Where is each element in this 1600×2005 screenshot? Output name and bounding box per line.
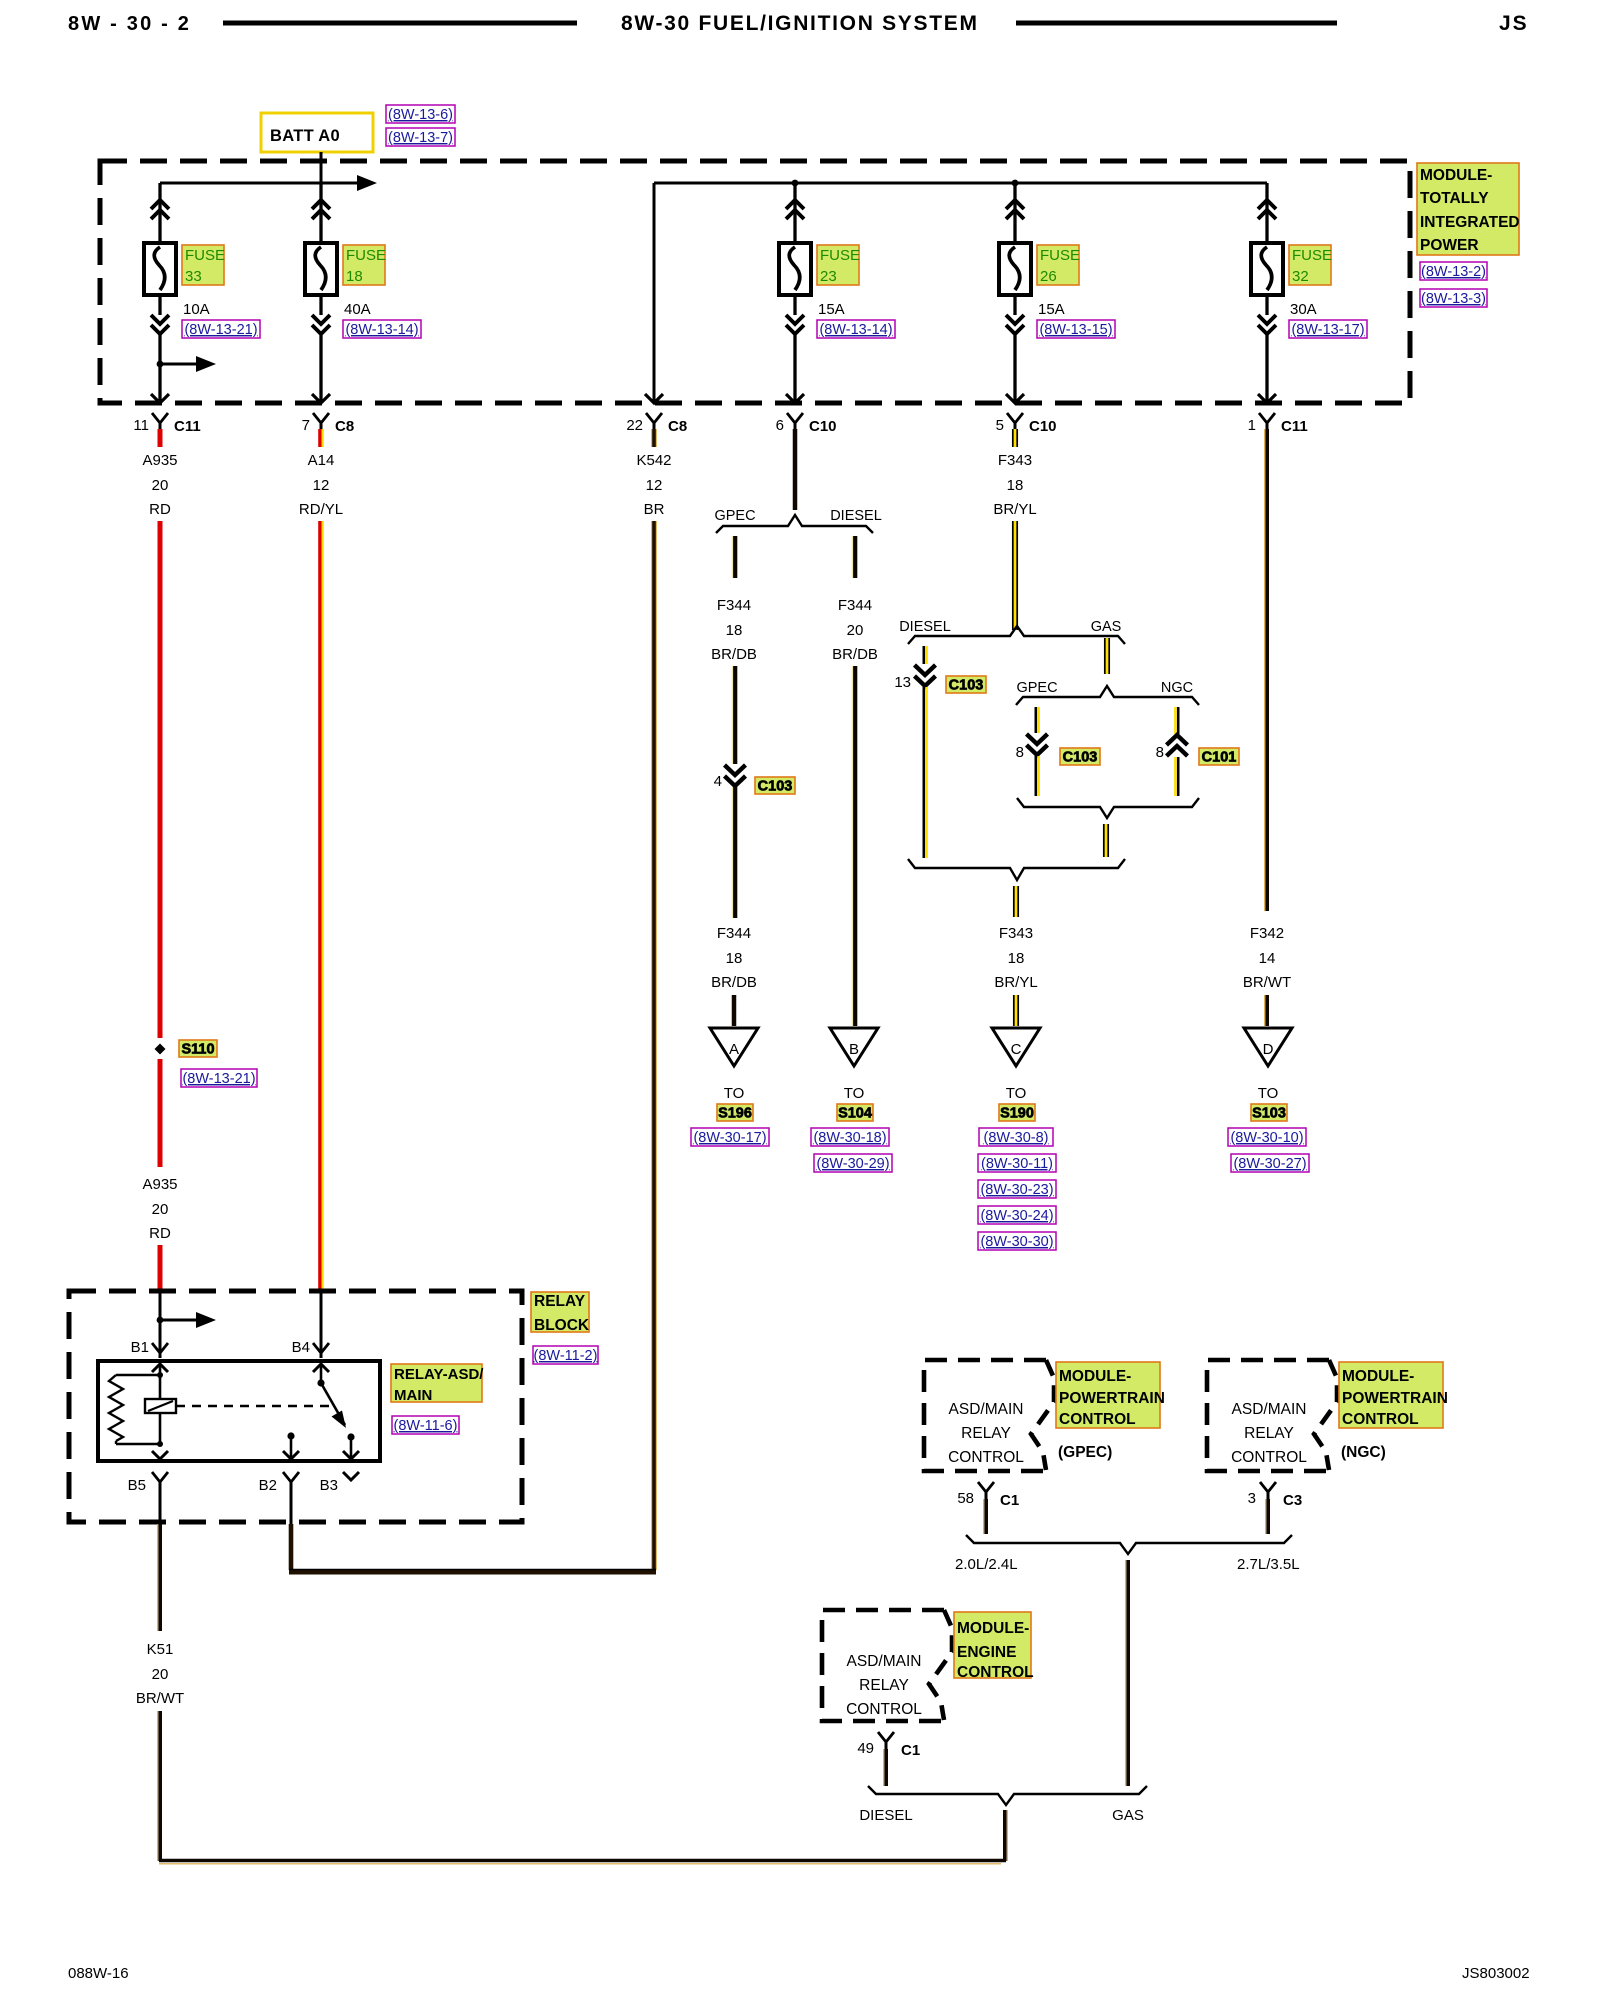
relay coil resistor <box>116 1374 160 1376</box>
fuse 26 symbol <box>999 243 1031 295</box>
wire B1 feed <box>159 1291 162 1358</box>
wire fuse 33 drop <box>158 183 161 243</box>
wire from pin 49 <box>883 1749 885 1786</box>
svg-text:A935: A935 <box>142 452 177 469</box>
svg-text:C1: C1 <box>1000 1492 1019 1509</box>
wire B5 through block edge <box>159 1489 162 1524</box>
wire from pin 6 C10 <box>793 429 798 510</box>
svg-text:S110: S110 <box>181 1042 214 1058</box>
svg-text:11: 11 <box>133 417 149 434</box>
wire fuse 26 drop <box>1013 183 1016 243</box>
wire B2 to K542 riser <box>289 1524 294 1570</box>
svg-text:(8W-13-14): (8W-13-14) <box>819 322 892 338</box>
bus feed arrow <box>321 182 357 185</box>
svg-text:3: 3 <box>1248 1490 1256 1507</box>
svg-text:BR/WT: BR/WT <box>136 1690 184 1707</box>
link 8W-30-30 <box>978 1232 1056 1250</box>
pin 49 C1 <box>878 1732 894 1742</box>
svg-text:6: 6 <box>776 417 784 434</box>
svg-text:ASD/MAIN: ASD/MAIN <box>847 1653 922 1670</box>
svg-text:33: 33 <box>185 268 202 285</box>
link 8W-13-2 <box>1420 262 1487 280</box>
bus junction wire left to fuse 33 <box>160 182 321 185</box>
fuse 18 symbol <box>305 243 337 295</box>
connector C103 pin 4 <box>725 765 746 775</box>
svg-text:BATT A0: BATT A0 <box>270 127 340 145</box>
fuse 26 label <box>1037 245 1079 285</box>
merge brace GPEC/NGC <box>1017 798 1199 818</box>
bus feed line to fuses 23/26/32 (K542 top) <box>654 182 1267 185</box>
svg-text:A935: A935 <box>142 1176 177 1193</box>
svg-text:26: 26 <box>1040 268 1057 285</box>
wire F343 BR/YL down <box>1014 521 1017 630</box>
wire fuse 26 to connector <box>1013 295 1016 315</box>
connector chevrons above fuse 32 <box>1258 200 1276 209</box>
wire BATT A0 to bus <box>320 152 323 183</box>
svg-text:DIESEL: DIESEL <box>859 1807 912 1824</box>
svg-text:CONTROL: CONTROL <box>948 1449 1024 1466</box>
wire A935 stub <box>158 429 163 447</box>
svg-text:C10: C10 <box>809 418 837 435</box>
wire merged F343 stub <box>1015 886 1018 917</box>
svg-text:TO: TO <box>724 1085 745 1102</box>
connector pin 11 C11 <box>152 413 168 423</box>
svg-text:RELAY: RELAY <box>1244 1425 1294 1442</box>
relay actuator dashed link <box>176 1405 333 1407</box>
junction arrow B1 <box>157 1317 164 1324</box>
svg-text:C103: C103 <box>758 779 793 795</box>
off-page triangle A <box>710 1028 758 1066</box>
svg-text:RELAY: RELAY <box>534 1293 586 1310</box>
wire fuse 18 to connector <box>319 295 322 315</box>
svg-text:A14: A14 <box>308 452 335 469</box>
svg-text:RELAY-ASD/: RELAY-ASD/ <box>394 1366 484 1383</box>
svg-text:(8W-30-18): (8W-30-18) <box>813 1130 886 1146</box>
svg-text:15A: 15A <box>1038 301 1065 318</box>
off-page triangle B <box>830 1028 878 1066</box>
connector chevrons above fuse 26 <box>1006 200 1024 209</box>
svg-text:32: 32 <box>1292 268 1309 285</box>
link 8W-30-27 <box>1231 1154 1309 1172</box>
arrowhead at TIPM edge x=321 <box>312 394 330 403</box>
relay coil <box>145 1399 176 1413</box>
svg-text:BR: BR <box>644 501 665 518</box>
svg-text:23: 23 <box>820 268 837 285</box>
svg-text:4: 4 <box>714 773 722 790</box>
svg-text:ENGINE: ENGINE <box>957 1644 1016 1661</box>
relay RELAY-ASD/MAIN body <box>98 1361 380 1461</box>
svg-text:B2: B2 <box>259 1477 277 1494</box>
svg-text:GPEC: GPEC <box>1016 680 1057 696</box>
svg-text:15A: 15A <box>818 301 845 318</box>
wire F344 to label <box>731 787 733 918</box>
svg-text:RELAY: RELAY <box>961 1425 1011 1442</box>
svg-text:30A: 30A <box>1290 301 1317 318</box>
svg-text:FUSE: FUSE <box>346 247 386 264</box>
svg-text:B5: B5 <box>128 1477 146 1494</box>
svg-text:POWERTRAIN: POWERTRAIN <box>1059 1390 1165 1407</box>
svg-text:F342: F342 <box>1250 925 1284 942</box>
svg-text:8: 8 <box>1156 744 1164 761</box>
wire NGC sub-branch lower <box>1177 757 1180 796</box>
svg-text:(8W-13-7): (8W-13-7) <box>388 130 453 146</box>
svg-text:(NGC): (NGC) <box>1341 1444 1386 1461</box>
svg-text:8: 8 <box>1016 744 1024 761</box>
svg-text:MAIN: MAIN <box>394 1387 432 1404</box>
svg-text:JS: JS <box>1499 12 1529 35</box>
wire B2 through block edge <box>290 1489 293 1524</box>
svg-text:GAS: GAS <box>1112 1807 1144 1824</box>
svg-text:22: 22 <box>626 417 643 434</box>
svg-text:S103: S103 <box>1252 1106 1286 1122</box>
link 8W-30-8 <box>979 1128 1053 1146</box>
wire fuse 32 to connector <box>1265 295 1268 315</box>
wire GPEC sub-branch <box>1035 707 1038 733</box>
fuse 32 symbol <box>1251 243 1283 295</box>
svg-text:JS803002: JS803002 <box>1462 1965 1530 1982</box>
wire K542 drop from bus <box>653 183 656 401</box>
pin 58 C1 <box>978 1482 994 1492</box>
svg-text:ASD/MAIN: ASD/MAIN <box>949 1401 1024 1418</box>
wire DIESEL branch stub <box>851 536 853 578</box>
svg-text:C11: C11 <box>1281 418 1308 435</box>
connector C103 pin 8 <box>1027 734 1048 744</box>
link 8W-13-21 <box>182 320 260 338</box>
svg-text:CONTROL: CONTROL <box>1059 1411 1136 1428</box>
link 8W-13-14 <box>817 320 895 338</box>
arrowhead at TIPM edge x=795 <box>786 394 804 403</box>
svg-text:(8W-11-2): (8W-11-2) <box>534 1348 598 1364</box>
svg-text:DIESEL: DIESEL <box>830 508 882 524</box>
module Totally Integrated Power dashed outline <box>100 161 1410 403</box>
svg-text:(8W-13-17): (8W-13-17) <box>1291 322 1364 338</box>
svg-text:K51: K51 <box>147 1641 174 1658</box>
connector chevrons below fuse 26 <box>1006 315 1024 324</box>
svg-text:C3: C3 <box>1283 1492 1302 1509</box>
connector chevrons above fuse 18 <box>312 200 330 209</box>
wire K51 lower <box>157 1711 159 1861</box>
svg-text:K542: K542 <box>636 452 671 469</box>
svg-text:20: 20 <box>152 477 169 494</box>
wire F344 DIESEL down <box>851 666 853 1026</box>
svg-text:INTEGRATED: INTEGRATED <box>1420 214 1520 231</box>
svg-text:F344: F344 <box>838 597 872 614</box>
arrowhead at TIPM edge K542 <box>645 394 663 403</box>
svg-text:RD: RD <box>149 1225 171 1242</box>
wire GPEC sub-branch lower <box>1035 756 1038 796</box>
svg-text:D: D <box>1263 1041 1274 1058</box>
fuse 23 label <box>817 245 859 285</box>
fuse 33 symbol <box>144 243 176 295</box>
svg-text:BR/YL: BR/YL <box>993 501 1036 518</box>
svg-text:A: A <box>729 1041 739 1058</box>
svg-text:20: 20 <box>152 1666 169 1683</box>
wire K51 horizontal run <box>159 1859 1006 1862</box>
off-page triangle D <box>1244 1028 1292 1066</box>
svg-text:CONTROL: CONTROL <box>957 1664 1034 1681</box>
link 8W-30-18 <box>811 1128 889 1146</box>
svg-text:TO: TO <box>1006 1085 1027 1102</box>
relay coil branch B1 <box>152 1364 168 1372</box>
pin B4 <box>313 1343 329 1353</box>
relay block dashed outline <box>69 1291 522 1522</box>
svg-text:20: 20 <box>152 1201 169 1218</box>
svg-text:20: 20 <box>847 622 864 639</box>
wire F342 from pin 1 C11 <box>1264 429 1266 911</box>
label MODULE-POWERTRAIN CONTROL (NGC) <box>1339 1362 1443 1428</box>
connector pin 22 C8 <box>646 413 662 423</box>
svg-text:C1: C1 <box>901 1742 920 1759</box>
connector chevrons below fuse 18 <box>312 315 330 324</box>
svg-text:7: 7 <box>302 417 310 434</box>
svg-text:12: 12 <box>313 477 330 494</box>
module Powertrain Control (NGC) dashed outline <box>1207 1360 1329 1471</box>
svg-text:B4: B4 <box>292 1339 310 1356</box>
junction arrow inside TIPM on fuse 33 branch <box>157 361 164 368</box>
svg-text:(8W-30-24): (8W-30-24) <box>980 1208 1053 1224</box>
svg-text:(8W-30-27): (8W-30-27) <box>1233 1156 1306 1172</box>
svg-text:C11: C11 <box>174 418 201 435</box>
svg-text:MODULE-: MODULE- <box>957 1620 1029 1637</box>
link 8W-13-3 <box>1420 289 1487 307</box>
svg-text:GAS: GAS <box>1091 619 1122 635</box>
wire merged GAS stub <box>1105 824 1108 857</box>
link 8W-30-23 <box>978 1180 1056 1198</box>
svg-text:(8W-30-23): (8W-30-23) <box>980 1182 1053 1198</box>
merge brace DIESEL/GAS <box>868 1786 1147 1805</box>
link 8W-30-10 <box>1228 1128 1306 1146</box>
svg-text:TO: TO <box>844 1085 865 1102</box>
svg-text:BR/DB: BR/DB <box>711 974 757 991</box>
label RELAY-ASD/MAIN <box>391 1364 482 1402</box>
svg-text:C10: C10 <box>1029 418 1057 435</box>
wire K542 BR down <box>651 521 653 1570</box>
pin B1 <box>152 1343 168 1353</box>
svg-text:088W-16: 088W-16 <box>68 1965 129 1982</box>
wire gas riser <box>1125 1560 1127 1786</box>
merge brace DIESEL/GAS <box>908 859 1125 880</box>
arrowhead at TIPM edge x=1015 <box>1006 394 1024 403</box>
svg-text:(8W-30-10): (8W-30-10) <box>1230 1130 1303 1146</box>
fuse 23 symbol <box>779 243 811 295</box>
link 8W-13-7 <box>386 128 455 146</box>
svg-text:1: 1 <box>1248 417 1256 434</box>
svg-text:C101: C101 <box>1202 750 1237 766</box>
wire fuse 32 drop <box>1265 183 1268 243</box>
module Powertrain Control (GPEC) dashed outline <box>924 1360 1046 1471</box>
svg-text:(8W-13-3): (8W-13-3) <box>1421 291 1486 307</box>
svg-text:S104: S104 <box>838 1106 872 1122</box>
svg-text:TOTALLY: TOTALLY <box>1420 190 1489 207</box>
svg-text:GPEC: GPEC <box>714 508 755 524</box>
fuse 33 label <box>182 245 224 285</box>
wire A14 stub <box>318 429 322 447</box>
svg-text:8W-30 FUEL/IGNITION SYSTEM: 8W-30 FUEL/IGNITION SYSTEM <box>621 12 979 35</box>
wire A14 RD/YL down to relay <box>318 521 322 1291</box>
svg-text:B1: B1 <box>131 1339 149 1356</box>
fuse 32 label <box>1289 245 1331 285</box>
svg-text:(8W-30-30): (8W-30-30) <box>980 1234 1053 1250</box>
connector pin 7 C8 <box>313 413 329 423</box>
wire DIESEL F343 down to merge <box>922 687 925 858</box>
link 8W-13-6 <box>386 105 455 123</box>
svg-text:(8W-30-29): (8W-30-29) <box>816 1156 889 1172</box>
wire from pin 3 <box>1265 1499 1267 1534</box>
label MODULE-POWERTRAIN CONTROL <box>1056 1362 1160 1428</box>
svg-text:58: 58 <box>957 1490 974 1507</box>
connector pin 6 C10 <box>787 413 803 423</box>
svg-text:B3: B3 <box>320 1477 338 1494</box>
svg-text:BR/DB: BR/DB <box>711 646 757 663</box>
wire GPEC branch stub <box>731 536 733 578</box>
svg-text:B: B <box>849 1041 859 1058</box>
svg-text:(8W-30-17): (8W-30-17) <box>693 1130 766 1146</box>
wire stub to triangle C <box>1015 995 1018 1026</box>
svg-text:40A: 40A <box>344 301 371 318</box>
svg-text:(8W-13-6): (8W-13-6) <box>388 107 453 123</box>
svg-text:(GPEC): (GPEC) <box>1058 1444 1112 1461</box>
svg-text:RELAY: RELAY <box>859 1677 909 1694</box>
connector chevrons below fuse 33 <box>151 315 169 324</box>
svg-text:(8W-30-8): (8W-30-8) <box>984 1130 1049 1146</box>
relay B1 bottom arrowhead <box>152 1451 168 1459</box>
wire brace to K51 run <box>1006 1810 1008 1861</box>
svg-text:BR/YL: BR/YL <box>994 974 1037 991</box>
svg-text:FUSE: FUSE <box>185 247 225 264</box>
link 8W-13-15 <box>1037 320 1115 338</box>
link 8W-13-14 <box>343 320 421 338</box>
pin 3 C3 <box>1260 1482 1276 1492</box>
link 8W-30-29 <box>814 1154 892 1172</box>
connector pin 5 C10 <box>1007 413 1023 423</box>
svg-text:C8: C8 <box>668 418 687 435</box>
svg-text:CONTROL: CONTROL <box>1231 1449 1307 1466</box>
svg-text:F344: F344 <box>717 597 751 614</box>
svg-text:TO: TO <box>1258 1085 1279 1102</box>
brace GPEC/DIESEL <box>716 515 873 533</box>
link 8W-11-6 <box>392 1416 459 1434</box>
svg-text:10A: 10A <box>183 301 210 318</box>
svg-text:13: 13 <box>894 674 911 691</box>
wire stub to triangle D <box>1264 995 1266 1026</box>
svg-text:18: 18 <box>726 950 743 967</box>
wire fuse 23 drop <box>793 183 796 243</box>
svg-text:2.0L/2.4L: 2.0L/2.4L <box>955 1556 1018 1573</box>
splice S110 <box>155 1044 166 1055</box>
wire NGC sub-branch upper <box>1177 707 1180 734</box>
svg-text:C103: C103 <box>949 678 984 694</box>
link 8W-30-24 <box>978 1206 1056 1224</box>
pin B5 <box>152 1472 168 1482</box>
svg-text:S190: S190 <box>1000 1106 1034 1122</box>
wire fuse 23 to connector <box>793 295 796 315</box>
relay contact B2 <box>287 1432 294 1439</box>
wire K542 stub <box>651 429 653 447</box>
svg-text:(8W-13-15): (8W-13-15) <box>1039 322 1112 338</box>
module label MODULE-TOTALLY INTEGRATED POWER <box>1417 163 1519 255</box>
svg-text:NGC: NGC <box>1161 680 1193 696</box>
brace GPEC/NGC <box>1016 686 1199 705</box>
svg-text:BR/DB: BR/DB <box>832 646 878 663</box>
svg-text:POWER: POWER <box>1420 237 1479 254</box>
wire A935 RD down to splice <box>158 521 163 1038</box>
svg-text:(8W-13-21): (8W-13-21) <box>182 1071 255 1087</box>
wire GAS stub <box>1106 638 1109 674</box>
svg-text:ASD/MAIN: ASD/MAIN <box>1232 1401 1307 1418</box>
svg-text:14: 14 <box>1259 950 1276 967</box>
svg-text:MODULE-: MODULE- <box>1420 167 1492 184</box>
header rule left <box>223 21 577 26</box>
battery feed BATT A0 <box>261 113 373 152</box>
svg-text:(8W-13-2): (8W-13-2) <box>1421 264 1486 280</box>
svg-text:FUSE: FUSE <box>820 247 860 264</box>
arrowhead at TIPM edge x=160 <box>151 394 169 403</box>
svg-text:FUSE: FUSE <box>1292 247 1332 264</box>
svg-text:C103: C103 <box>1063 750 1098 766</box>
svg-text:C: C <box>1011 1041 1022 1058</box>
wire DIESEL F343 branch <box>922 646 925 664</box>
relay contact B3 <box>347 1433 354 1440</box>
off-page triangle C <box>992 1028 1040 1066</box>
svg-text:(8W-13-14): (8W-13-14) <box>345 322 418 338</box>
svg-text:49: 49 <box>857 1740 874 1757</box>
arrowhead at TIPM edge x=1267 <box>1258 394 1276 403</box>
link 8W-30-11 <box>978 1154 1056 1172</box>
wire B4 feed <box>320 1291 323 1358</box>
label MODULE-ENGINE CONTROL <box>954 1612 1031 1678</box>
junction fuse 26 <box>1012 180 1019 187</box>
svg-text:S196: S196 <box>718 1106 752 1122</box>
svg-text:(8W-30-11): (8W-30-11) <box>981 1156 1053 1172</box>
link 8W-30-17 <box>691 1128 769 1146</box>
pin B3 <box>343 1472 359 1480</box>
svg-text:MODULE-: MODULE- <box>1059 1368 1131 1385</box>
svg-text:(8W-11-6): (8W-11-6) <box>394 1418 458 1434</box>
connector C103 pin 13 <box>915 665 936 675</box>
svg-text:18: 18 <box>1007 477 1024 494</box>
svg-text:RD/YL: RD/YL <box>299 501 343 518</box>
svg-text:18: 18 <box>346 268 363 285</box>
merge brace 2.0L/2.4L / 2.7L/3.5L <box>966 1535 1292 1554</box>
label RELAY BLOCK <box>531 1292 589 1332</box>
svg-text:F343: F343 <box>999 925 1033 942</box>
svg-text:C8: C8 <box>335 418 354 435</box>
wire fuse 18 drop <box>319 183 322 243</box>
svg-text:(8W-13-21): (8W-13-21) <box>184 322 257 338</box>
svg-text:F344: F344 <box>717 925 751 942</box>
relay switch arm from B4 <box>313 1364 329 1372</box>
svg-text:RD: RD <box>149 501 171 518</box>
svg-text:BLOCK: BLOCK <box>534 1317 590 1334</box>
link 8W-11-2 <box>533 1346 598 1364</box>
wire fuse 33 to connector <box>158 295 161 315</box>
header rule right <box>1016 21 1337 26</box>
svg-text:BR/WT: BR/WT <box>1243 974 1291 991</box>
wire F343 stub <box>1014 429 1017 447</box>
fuse 18 label <box>343 245 385 285</box>
connector chevrons below fuse 23 <box>786 315 804 324</box>
connector C101 pin 8 <box>1167 735 1188 745</box>
svg-text:F343: F343 <box>998 452 1032 469</box>
connector chevrons above fuse 23 <box>786 200 804 209</box>
connector pin 1 C11 <box>1259 413 1275 423</box>
link 8W-13-17 <box>1289 320 1367 338</box>
wire from pin 58 <box>983 1499 985 1534</box>
svg-text:12: 12 <box>646 477 663 494</box>
svg-text:DIESEL: DIESEL <box>899 619 951 635</box>
junction fuse 23 <box>792 180 799 187</box>
connector chevrons above fuse 33 <box>151 200 169 209</box>
